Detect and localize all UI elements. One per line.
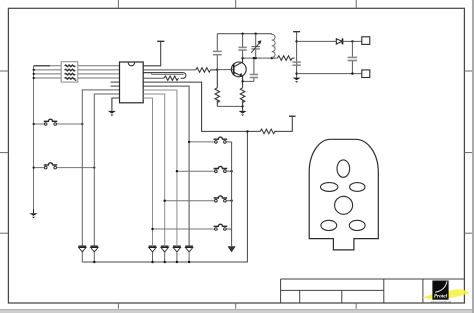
junction node (SW3/right bus) xyxy=(230,200,232,202)
junction node (colF/SW1) xyxy=(188,141,190,143)
diode D3 xyxy=(149,246,157,262)
fob button mid-right xyxy=(350,183,365,192)
resistor R5 (emitter) xyxy=(240,81,245,106)
wire IC pin to R2 xyxy=(143,69,196,71)
fob button bottom-left xyxy=(321,220,337,230)
junction node (bus/D5) xyxy=(176,261,178,263)
junction node (col/row4) xyxy=(33,77,35,79)
inductor L1 (vertical coil) xyxy=(272,34,275,58)
pushbutton switch SW1 (row 1) xyxy=(189,137,232,143)
svg-text:Protel: Protel xyxy=(434,294,448,300)
junction node (P1 branch / C5) xyxy=(351,40,353,42)
transistor Q1 xyxy=(231,58,246,81)
resistor network RP1 xyxy=(61,62,78,82)
junction node (col/row2) xyxy=(33,69,35,71)
window right strip xyxy=(472,0,474,313)
junction node (col/S1) xyxy=(33,123,35,125)
capacitor C5 (between pads) xyxy=(348,41,357,73)
junction node (S1/left matrix wire A) xyxy=(81,123,83,125)
junction node (base node) xyxy=(216,68,218,70)
IC stub pin left 86 xyxy=(111,85,120,87)
zone tick top 2 xyxy=(235,0,237,8)
zone tick right 3 xyxy=(464,232,472,234)
ground GND4 (oscillator) xyxy=(239,111,247,116)
resistor R4 (rail to antenna) xyxy=(277,56,294,61)
junction node (col/S2) xyxy=(33,167,35,169)
wire IC pin to R1 xyxy=(143,77,164,79)
title block xyxy=(281,279,465,303)
wire antenna top branch xyxy=(297,40,337,42)
junction node (antenna / bottom branch) xyxy=(295,72,297,74)
fob button center xyxy=(335,196,353,214)
pushbutton switch SW3 (row 3) xyxy=(165,196,232,202)
wire antenna bottom branch to pad P2 xyxy=(297,73,362,75)
wire row3 xyxy=(34,73,120,75)
wire D7 to pad P1 xyxy=(342,40,362,42)
diode D1 xyxy=(78,246,86,262)
IC ground pin wire xyxy=(112,98,120,111)
zone tick bottom 1 xyxy=(117,303,119,309)
junction node (bottom rail / emitter R) xyxy=(241,105,243,107)
bottom bus wire xyxy=(82,131,247,262)
Protel logo yellow swoosh xyxy=(422,289,469,299)
junction node (bus/D3) xyxy=(151,261,153,263)
osc top rail wire xyxy=(217,33,271,35)
capacitor C6 (antenna shunt) xyxy=(292,62,300,65)
T-point terminal (osc stub) xyxy=(157,40,164,42)
PCB outline (key fob) xyxy=(309,139,378,250)
trimmer capacitor C3 xyxy=(251,34,261,58)
zone tick right 2 xyxy=(464,152,472,154)
collector rail wire xyxy=(243,57,278,59)
junction node (bus riser / modulation line) xyxy=(246,130,248,132)
ground GND2 (IC) xyxy=(108,111,116,116)
junction node (collector top) xyxy=(241,57,243,59)
window bottom strip xyxy=(0,309,474,313)
junction node (antenna / top branch) xyxy=(295,40,297,42)
ground GND5 (antenna) xyxy=(293,78,301,83)
inductor L2 (capsule on IC pin) xyxy=(143,73,186,79)
junction node (top rail / C3) xyxy=(255,33,257,35)
pushbutton switch SW4 (row 4) xyxy=(153,224,232,230)
fob button bottom-right xyxy=(349,220,365,230)
wire base node to Q1 base xyxy=(217,69,233,71)
capacitor C1 (base-rail) xyxy=(213,34,222,70)
junction node (colE/SW2) xyxy=(176,170,178,172)
junction node (S2/left matrix wire B) xyxy=(93,167,95,169)
svg-text:advancing the art: advancing the art xyxy=(431,300,452,304)
junction node (rail / C3) xyxy=(255,57,257,59)
pushbutton switch S1 xyxy=(35,119,82,125)
junction node (emitter) xyxy=(241,80,243,82)
zone tick left 2 xyxy=(0,152,8,154)
resistor R2 (base feed) xyxy=(196,68,211,73)
diode D6 xyxy=(185,246,193,262)
wire row2 xyxy=(34,69,120,71)
wire row4 xyxy=(34,77,120,79)
junction node (C4 top on rail) xyxy=(253,57,255,59)
junction node (bus/D4) xyxy=(164,261,166,263)
wire matrix column F (IC pin to row1/diode D6) xyxy=(143,86,189,246)
pushbutton switch S2 xyxy=(35,163,94,169)
zone tick left 1 xyxy=(0,70,8,72)
wire matrix column A (IC pin to diode D1) xyxy=(82,90,119,246)
wire IC pin1 to antenna stub xyxy=(143,42,161,66)
T-point terminal (supply stub) xyxy=(289,115,296,117)
junction node (bus/D2) xyxy=(93,261,95,263)
diode D7 xyxy=(336,38,342,44)
T-point terminal (antenna top) xyxy=(293,31,300,33)
wire modulation line (IC pin to R6 / T-point) xyxy=(143,82,258,131)
ground GND3 (right bus, arrow style) xyxy=(228,246,236,252)
right bus wire (switch commons) xyxy=(231,142,233,246)
Protel logo swoosh curve xyxy=(435,281,447,292)
junction node (colC/SW4) xyxy=(151,228,153,230)
junction node (bus/D6) xyxy=(188,261,190,263)
diode D2 xyxy=(90,246,98,262)
wire R2 to base node xyxy=(211,69,218,71)
diode D5 xyxy=(173,246,181,262)
zone tick left 3 xyxy=(0,232,8,234)
IC U1 xyxy=(120,62,144,103)
junction node (rail / L1) xyxy=(271,57,273,59)
osc bottom rail wire xyxy=(217,105,242,107)
Protel logo black square xyxy=(432,281,448,300)
wire matrix column D (IC pin to row3/diode D4) xyxy=(143,94,165,246)
junction node (top rail / C2) xyxy=(241,33,243,35)
zone tick bottom 3 xyxy=(355,303,357,309)
wire matrix column B (IC pin to diode D2) xyxy=(94,94,119,246)
zone tick top 3 xyxy=(355,0,357,8)
zone tick top 1 xyxy=(117,0,119,8)
wire R6 to T-point xyxy=(275,116,292,131)
resistor R3 (base lower) xyxy=(215,70,220,107)
wire matrix column C (IC pin to row4/diode D3) xyxy=(143,98,152,246)
resistor R1 (osc feedback) xyxy=(164,76,178,80)
capacitor C4 (feedback, emitter) xyxy=(243,58,259,81)
pad P1 xyxy=(362,37,370,45)
capacitor C2 (gray, rail-collector) xyxy=(238,34,246,58)
pushbutton switch SW2 (row 2) xyxy=(177,166,232,172)
fob button mid-left xyxy=(321,183,338,192)
antenna column wire xyxy=(296,32,298,78)
IC stub pin left 82 xyxy=(111,81,120,83)
zone tick right 1 xyxy=(464,70,472,72)
wire row1 (column to IC pin 1) xyxy=(34,65,120,67)
zone tick bottom 2 xyxy=(235,303,237,309)
junction node (colD/SW3) xyxy=(164,200,166,202)
junction node (SW2/right bus) xyxy=(230,170,232,172)
diode D4 xyxy=(161,246,169,262)
junction node (P2 branch / C5) xyxy=(351,72,353,74)
wire matrix column E (IC pin to row2/diode D5) xyxy=(143,90,177,246)
junction node (col/row3) xyxy=(33,73,35,75)
resistor R6 (modulation line) xyxy=(259,129,277,134)
pad P2 xyxy=(362,70,370,78)
ground bus column (left common node) xyxy=(33,66,35,209)
fob button top xyxy=(337,160,350,177)
ground GND1 (bottom of left column) xyxy=(29,213,37,218)
